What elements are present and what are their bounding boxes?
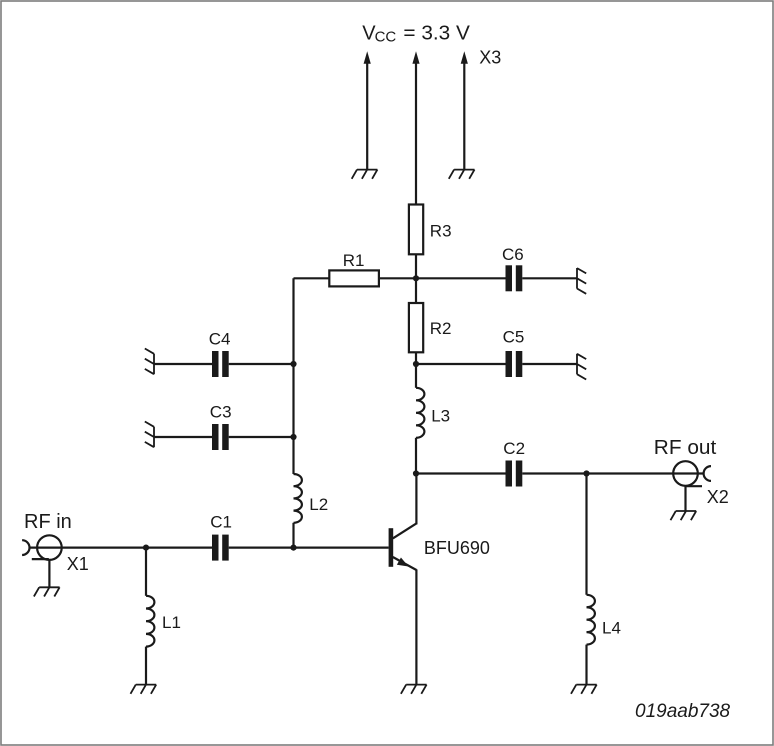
connector X2 stem xyxy=(684,486,686,511)
net label VCC = 3.3 V xyxy=(362,22,470,45)
wire node to C6 xyxy=(416,277,506,279)
wire L3 to collector node xyxy=(415,438,417,474)
emitter arrow xyxy=(397,557,409,566)
svg-text:BFU690: BFU690 xyxy=(424,538,490,558)
resistor R2 xyxy=(409,303,423,352)
inductor L2 xyxy=(294,474,302,523)
svg-text:= 3.3 V: = 3.3 V xyxy=(403,22,470,44)
connector X1 circle xyxy=(37,535,62,560)
ground (under emitter) xyxy=(401,685,427,694)
node X1/L1 xyxy=(143,545,149,551)
svg-text:C2: C2 xyxy=(503,439,525,458)
wire column C4 node to C3 node xyxy=(292,364,294,437)
ground (left of C3) xyxy=(145,422,154,448)
svg-text:R3: R3 xyxy=(430,222,452,241)
wire C1 to base node xyxy=(229,546,294,548)
ground (right of C6) xyxy=(577,268,586,294)
svg-text:019aab738: 019aab738 xyxy=(635,701,731,722)
emitter diagonal xyxy=(393,557,417,570)
node R2/C5/L3 xyxy=(413,361,419,367)
svg-text:C3: C3 xyxy=(210,403,232,422)
wire R3 bottom to node xyxy=(415,254,417,278)
capacitor C4 xyxy=(212,351,229,377)
wire C6 to ground xyxy=(522,277,577,279)
wire node to L4 xyxy=(585,474,587,595)
capacitor C2 xyxy=(506,461,523,487)
ground (under X1) xyxy=(34,587,60,596)
transistor Q1 BFU690 xyxy=(389,474,417,685)
connector X2 tab xyxy=(686,485,703,487)
ground (under X2) xyxy=(671,511,697,520)
capacitor C5 xyxy=(506,351,523,377)
svg-text:C6: C6 xyxy=(502,245,524,264)
svg-text:C5: C5 xyxy=(503,328,525,347)
connector X2 circle xyxy=(673,461,698,486)
wire L2 to base node xyxy=(292,523,294,548)
node C2/L4 xyxy=(583,470,589,476)
ground (right of C5) xyxy=(577,354,586,380)
ground (under L1) xyxy=(131,685,157,694)
svg-text:C1: C1 xyxy=(210,513,232,532)
wire node to C5 xyxy=(416,363,506,365)
svg-text:X2: X2 xyxy=(707,487,729,507)
svg-text:X3: X3 xyxy=(479,47,501,67)
ground (under left VCC arrow) xyxy=(352,170,378,179)
svg-text:RF out: RF out xyxy=(654,437,717,459)
ground (under L4) xyxy=(571,685,597,694)
wire C4 to node xyxy=(229,363,294,365)
wire R2 bottom to node xyxy=(415,352,417,364)
node collector/L3/C2 xyxy=(413,470,419,476)
capacitor C6 xyxy=(506,265,523,291)
wire node to R2 xyxy=(415,278,417,304)
svg-text:L2: L2 xyxy=(309,495,328,514)
wire L4 to ground xyxy=(585,645,587,685)
node C1/L2/base xyxy=(290,545,296,551)
wire C3 to node xyxy=(229,436,294,438)
VCC arrow 2 (middle, to R3) xyxy=(412,51,419,204)
ground (left of C4) xyxy=(145,349,154,375)
svg-text:L1: L1 xyxy=(162,613,181,632)
wire X1 through circle to C1 xyxy=(30,546,213,548)
wire collector node to C2 xyxy=(416,472,506,474)
base bar xyxy=(389,528,394,567)
wire R2 node to L3 xyxy=(415,364,417,388)
inductor L4 xyxy=(587,595,595,645)
wire ground to C3 xyxy=(154,436,212,438)
node C3/column xyxy=(290,434,296,440)
wire ground to C4 xyxy=(154,363,212,365)
resistor R1 xyxy=(329,270,379,286)
connector X1 stem xyxy=(48,560,50,587)
wire L1 to ground xyxy=(145,647,147,685)
svg-text:L3: L3 xyxy=(431,406,450,425)
emitter wire down to ground xyxy=(415,569,417,684)
wire column R1-corner down to C4 node xyxy=(292,278,294,364)
wire R1 right to node xyxy=(379,277,416,279)
svg-text:RF in: RF in xyxy=(24,511,72,533)
svg-text:L4: L4 xyxy=(602,619,621,638)
wire base node to transistor xyxy=(294,546,389,548)
VCC arrow 3 (right, X3) xyxy=(461,51,468,169)
wire node to L1 xyxy=(145,548,147,596)
wire C2 to X2 xyxy=(522,472,703,474)
wire C3 node to L2 xyxy=(292,437,294,474)
node R3/R1/R2/C6 xyxy=(413,275,419,281)
resistor R3 xyxy=(409,205,423,255)
connector X1 tab xyxy=(32,558,49,560)
VCC arrow 1 (left) xyxy=(364,51,371,169)
collector wire up to node xyxy=(415,474,417,525)
svg-text:R1: R1 xyxy=(343,251,365,270)
svg-text:X1: X1 xyxy=(67,554,89,574)
svg-text:CC: CC xyxy=(375,28,397,45)
collector diagonal xyxy=(393,523,417,538)
wire R1 left feed xyxy=(294,277,330,279)
svg-text:C4: C4 xyxy=(209,329,231,348)
connector X1 mating arc xyxy=(22,540,29,555)
capacitor C1 xyxy=(212,535,229,561)
inductor L3 xyxy=(416,388,424,438)
wire C5 to ground xyxy=(522,363,577,365)
svg-text:R2: R2 xyxy=(430,319,452,338)
capacitor C3 xyxy=(212,424,229,450)
connector X2 mating arc xyxy=(704,466,711,481)
ground (under right VCC arrow) xyxy=(449,170,475,179)
node C4/column xyxy=(290,361,296,367)
inductor L1 xyxy=(146,596,154,647)
